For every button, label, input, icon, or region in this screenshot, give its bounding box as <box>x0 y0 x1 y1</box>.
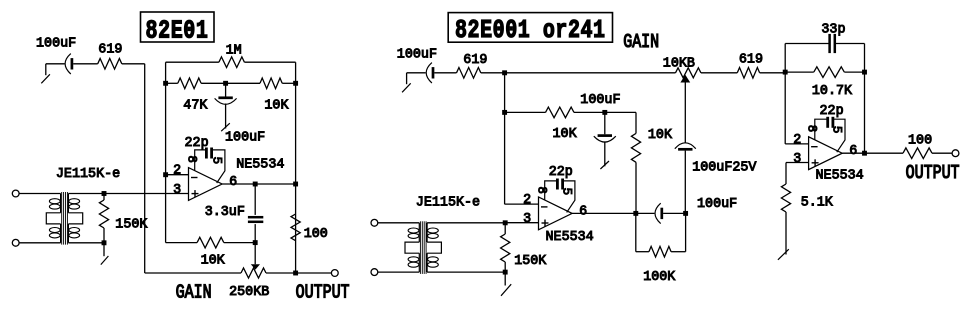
svg-text:8: 8 <box>185 155 199 163</box>
svg-text:8: 8 <box>535 186 549 194</box>
svg-text:33p: 33p <box>821 23 845 38</box>
svg-text:JE115K-e: JE115K-e <box>416 196 480 211</box>
svg-text:619: 619 <box>739 53 763 68</box>
svg-text:3.3uF: 3.3uF <box>205 205 245 220</box>
svg-text:2: 2 <box>173 164 181 179</box>
svg-text:619: 619 <box>463 53 487 68</box>
svg-text:OUTPUT: OUTPUT <box>296 283 350 304</box>
svg-text:22p: 22p <box>820 104 844 119</box>
svg-text:5.1K: 5.1K <box>801 195 834 210</box>
svg-text:100uF: 100uF <box>397 48 437 63</box>
svg-text:10K: 10K <box>201 253 226 268</box>
svg-text:5: 5 <box>830 126 844 134</box>
svg-text:100uF: 100uF <box>36 37 76 52</box>
svg-text:10K: 10K <box>648 128 673 143</box>
svg-text:5: 5 <box>210 157 224 165</box>
svg-text:3: 3 <box>173 183 181 198</box>
svg-text:10K: 10K <box>264 99 289 114</box>
svg-text:2: 2 <box>523 193 531 208</box>
svg-text:100uF25V: 100uF25V <box>692 160 756 175</box>
svg-text:22p: 22p <box>185 136 209 151</box>
svg-text:10.7K: 10.7K <box>812 84 853 99</box>
svg-text:6: 6 <box>849 144 857 159</box>
svg-text:619: 619 <box>98 43 122 58</box>
svg-text:100uF: 100uF <box>225 130 265 145</box>
svg-text:100K: 100K <box>643 270 676 285</box>
svg-text:NE5534: NE5534 <box>816 169 864 184</box>
svg-text:100uF: 100uF <box>580 93 620 108</box>
svg-text:150K: 150K <box>514 254 547 269</box>
svg-text:100: 100 <box>908 134 932 149</box>
svg-text:6: 6 <box>579 204 587 219</box>
svg-text:10K: 10K <box>553 127 578 142</box>
svg-text:5: 5 <box>560 188 574 196</box>
svg-text:3: 3 <box>523 212 531 227</box>
svg-text:2: 2 <box>793 133 801 148</box>
svg-text:250KB: 250KB <box>229 285 269 300</box>
svg-text:82E001 or241: 82E001 or241 <box>455 16 606 45</box>
svg-text:GAIN: GAIN <box>623 33 659 54</box>
svg-text:6: 6 <box>229 175 237 190</box>
svg-text:NE5534: NE5534 <box>546 230 594 245</box>
svg-text:JE115K-e: JE115K-e <box>56 167 120 182</box>
svg-text:OUTPUT: OUTPUT <box>906 163 960 184</box>
svg-text:100uF: 100uF <box>697 197 737 212</box>
svg-text:NE5534: NE5534 <box>236 158 284 173</box>
svg-text:GAIN: GAIN <box>176 283 212 304</box>
svg-text:3: 3 <box>793 152 801 167</box>
svg-text:1M: 1M <box>226 43 242 58</box>
svg-text:82E01: 82E01 <box>146 16 209 45</box>
svg-text:150K: 150K <box>115 218 148 233</box>
svg-text:47K: 47K <box>183 99 208 114</box>
svg-text:22p: 22p <box>549 165 573 180</box>
svg-text:10KB: 10KB <box>663 56 695 71</box>
svg-text:100: 100 <box>304 227 328 242</box>
svg-text:8: 8 <box>805 125 819 133</box>
